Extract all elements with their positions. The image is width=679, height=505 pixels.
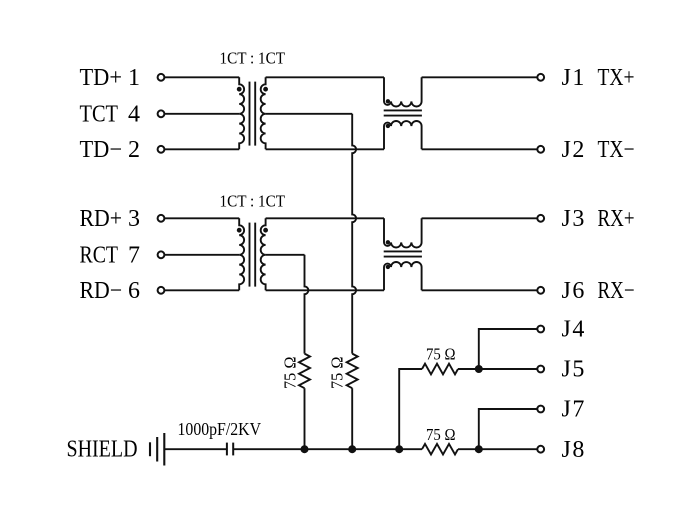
vertical wire from T1 center tap with hops to resistor R2 [352, 114, 356, 354]
bottom bus wire from capacitor to resistor R4 [233, 448, 422, 450]
wire T2 secondary center tap to node [266, 254, 305, 256]
junction dot R3 branch on bus [395, 445, 403, 453]
svg-text:TCT: TCT [80, 101, 119, 127]
T1 primary polarity dot [237, 87, 242, 92]
svg-text:TX+: TX+ [598, 65, 635, 91]
bottom bus wire from shield to capacitor [164, 448, 226, 450]
svg-text:RCT: RCT [80, 242, 119, 268]
svg-text:RX−: RX− [598, 278, 635, 304]
wire T2 secondary bottom to choke L2 [266, 289, 384, 291]
junction dot J4 J5 node [475, 365, 483, 373]
wire T1 secondary bottom to choke L1 [266, 148, 384, 150]
terminal circle J4 [537, 326, 544, 333]
common-mode choke L2 bottom winding [384, 262, 422, 290]
choke L2 core [384, 250, 422, 252]
wire T1 secondary top to choke L1 [266, 76, 384, 78]
wire RD+ 3 to T2 primary [165, 217, 239, 219]
terminal circle RD- 6 [158, 287, 165, 294]
shield ground symbol bar tall [163, 433, 165, 466]
svg-text:75 Ω: 75 Ω [328, 357, 347, 390]
terminal circle TD+ 1 [158, 74, 165, 81]
svg-text:75 Ω: 75 Ω [426, 425, 456, 444]
terminal circle RD+ 3 [158, 215, 165, 222]
svg-text:TX−: TX− [598, 137, 635, 163]
svg-text:RD−: RD− [80, 278, 123, 304]
wire TD- 2 to T1 primary [165, 148, 239, 150]
terminal circle J5 [537, 366, 544, 373]
common-mode choke L1 top winding [384, 77, 422, 106]
terminal circle J6 [537, 287, 544, 294]
T2 primary polarity dot [237, 228, 242, 233]
transformer T1 core [249, 82, 251, 146]
wire R3 to J5 node [458, 368, 537, 370]
wire branch to resistor R3 [399, 369, 422, 449]
svg-text:SHIELD: SHIELD [67, 437, 138, 463]
wire L1 to J2 [422, 148, 537, 150]
svg-text:J5: J5 [562, 357, 586, 383]
L1 top winding polarity dot [386, 99, 390, 103]
svg-text:RD+: RD+ [80, 206, 123, 232]
wire TD+ 1 to T1 primary [165, 76, 239, 78]
resistor R1 75 Ohm vertical [299, 354, 310, 389]
wire L2 to J6 [422, 289, 537, 291]
common-mode choke L2 top winding [384, 218, 422, 247]
svg-text:J8: J8 [562, 437, 586, 463]
resistor R3 75 Ohm horizontal [422, 364, 458, 375]
wire RCT 7 to T2 primary center tap [165, 254, 239, 256]
svg-text:75 Ω: 75 Ω [280, 357, 299, 390]
svg-text:1: 1 [128, 65, 140, 91]
wire node to J7 [479, 409, 537, 449]
svg-text:1CT : 1CT: 1CT : 1CT [220, 191, 286, 210]
L2 bottom winding polarity dot [386, 265, 390, 269]
L1 bottom winding polarity dot [386, 124, 390, 128]
svg-text:2: 2 [128, 137, 140, 163]
terminal circle J7 [537, 406, 544, 413]
svg-text:TD+: TD+ [80, 65, 123, 91]
T2 secondary polarity dot [263, 228, 268, 233]
terminal circle TCT 4 [158, 110, 165, 117]
junction dot R1 on bus [301, 445, 309, 453]
svg-text:TD−: TD− [80, 137, 123, 163]
capacitor C1 right plate [232, 443, 234, 456]
svg-text:J1: J1 [562, 65, 586, 91]
svg-text:7: 7 [128, 242, 140, 268]
terminal circle J1 [537, 74, 544, 81]
wire R2 to bottom bus [351, 388, 353, 449]
transformer T1 secondary winding [261, 77, 266, 149]
bottom bus wire from R4 to J8 [458, 448, 537, 450]
shield ground symbol bar short [149, 442, 151, 456]
transformer T2 secondary winding [261, 218, 266, 290]
svg-text:3: 3 [128, 206, 140, 232]
svg-text:J4: J4 [562, 317, 586, 343]
wire node to J4 [479, 329, 537, 369]
vertical wire from T2 center tap with hop to resistor R1 [305, 255, 309, 354]
capacitor C1 left plate [226, 443, 228, 456]
transformer T2 core [249, 223, 251, 287]
transformer T2 primary winding [239, 218, 244, 290]
svg-text:1CT : 1CT: 1CT : 1CT [220, 49, 286, 68]
svg-text:6: 6 [128, 278, 140, 304]
wire T1 secondary center tap to node [266, 113, 353, 115]
terminal circle TD- 2 [158, 146, 165, 153]
wire RD- 6 to T2 primary [165, 289, 239, 291]
shield ground symbol bar middle [156, 437, 158, 462]
wire R1 to bottom bus [304, 388, 306, 449]
resistor R4 75 Ohm horizontal [422, 444, 458, 455]
terminal circle RCT 7 [158, 251, 165, 258]
svg-text:4: 4 [128, 101, 140, 127]
terminal circle J3 [537, 215, 544, 222]
L2 top winding polarity dot [386, 240, 390, 244]
svg-text:1000pF/2KV: 1000pF/2KV [178, 419, 262, 439]
svg-text:75 Ω: 75 Ω [426, 345, 456, 364]
terminal circle J8 [537, 446, 544, 453]
junction dot J7 J8 node [475, 445, 483, 453]
wire T2 secondary top to choke L2 [266, 217, 384, 219]
svg-text:J7: J7 [562, 397, 586, 423]
svg-text:RX+: RX+ [598, 206, 635, 232]
wire L1 to J1 [422, 76, 537, 78]
common-mode choke L1 bottom winding [384, 121, 422, 149]
svg-text:J2: J2 [562, 137, 586, 163]
terminal circle J2 [537, 146, 544, 153]
T1 secondary polarity dot [263, 87, 268, 92]
wire TCT 4 to T1 primary center tap [165, 113, 239, 115]
wire L2 to J3 [422, 217, 537, 219]
svg-text:J6: J6 [562, 278, 586, 304]
svg-text:J3: J3 [562, 206, 586, 232]
choke L1 core [384, 109, 422, 111]
junction dot R2 on bus [348, 445, 356, 453]
resistor R2 75 Ohm vertical [347, 354, 358, 389]
transformer T1 primary winding [239, 77, 244, 149]
